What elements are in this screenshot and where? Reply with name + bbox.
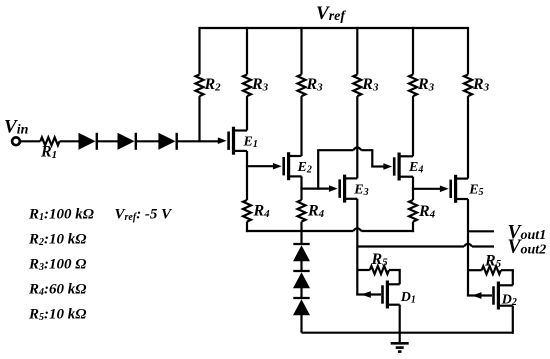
wire diode1 to diode2 [300,261,302,271]
wire D1 gate wire [356,293,381,295]
transistor D1 (arrow out of gate) [361,281,400,309]
svg-text:D2: D2 [501,293,517,309]
svg-text:E2: E2 [297,160,312,176]
svg-text:D1: D1 [400,290,416,306]
wire gate net down jog [371,149,373,166]
wire diode3 to E1 gate, junction with branch1 [178,140,219,142]
wire branch6 upper segment [467,27,469,75]
svg-text:R3: R3 [417,76,435,94]
diode chain diode 2 (pointing up) [293,271,310,288]
svg-text:R2: R2 [204,76,222,94]
wire R5 right end to D1 drain riser [389,269,400,284]
svg-text:R4: R4 [418,203,436,221]
svg-text:R5: R5 [371,251,389,269]
resistor R4 (column2) [243,200,251,222]
wire gate net horizontal with hop over branch4 [317,149,372,151]
svg-text:Vin: Vin [4,117,29,138]
wire hop over E3 source column [353,228,361,231]
wire branch4 lower segment to E3 drain [356,96,358,178]
wire E4 source down to R4, junction to E5 gate [412,177,414,200]
wire branch2 lower segment to E1 drain [246,96,248,130]
wire D2 gate wire [467,294,492,296]
wire E4 source tap to E5 gate [412,188,440,190]
diode chain diode 3 (pointing up) [293,298,310,315]
svg-text:R3: R3 [306,76,324,94]
diode chain diode 1 (pointing up) [293,244,310,261]
wire R4 bottom to rail A [246,222,248,233]
wire branch3 lower segment to E2 drain [300,96,302,156]
svg-text:Vref: Vref [316,3,346,24]
svg-text:R3: R3 [361,76,379,94]
wire branch3 upper segment [300,27,302,75]
svg-text:R4: R4 [253,203,271,221]
svg-text:E4: E4 [408,160,423,176]
resistor R3 (branch3) [298,75,306,97]
resistor R1 [40,137,59,145]
resistor R5 (right) [482,266,501,274]
svg-text:R3:100 Ω: R3:100 Ω [28,257,86,274]
wire branch1 lower segment [198,96,200,142]
transistor D2 (arrow out of gate) [472,282,513,310]
diode input 1 [79,133,97,150]
wire E3 source down through Vout2 to D1 gate corner [356,199,358,295]
wire Vref top rail [200,27,469,29]
wire diode3 to ground rail corner [300,315,302,333]
svg-text:E5: E5 [468,183,483,199]
resistor R4 (column5) [409,200,417,222]
diode input 2 [118,133,136,150]
wire branch5 lower segment to E4 drain [412,96,414,156]
svg-text:Vref: -5 V: Vref: -5 V [115,207,174,224]
svg-text:R5: R5 [484,253,502,271]
wire E1 source to E2 gate [246,165,273,167]
transistor E3 [329,175,357,203]
wire R4 bottom corner to rail A right end [412,222,414,233]
svg-text:R4:60 kΩ: R4:60 kΩ [28,282,86,299]
terminal Vin (open circle) [12,137,20,145]
wire D1 source down through ground rail to ground symbol [399,305,401,343]
resistor R4 (column3) [298,200,306,222]
wire hop over branch4 [353,147,361,150]
svg-text:R1:100 kΩ: R1:100 kΩ [28,207,94,224]
resistor R2 [196,75,204,97]
wire diode1 to diode2 [98,140,118,142]
wire ground rail [302,332,513,334]
svg-text:R4: R4 [307,203,325,221]
wire R5 (right) line from E5 source column [468,269,482,271]
wire diode2 to diode3 [300,288,302,298]
svg-text:E3: E3 [353,182,368,198]
wire Vout2 line with hop over E5 source column [357,245,494,247]
wire E3/E4 gate net riser [317,150,319,190]
wire branch4 upper segment [356,27,358,75]
resistor R5 (left) [370,266,389,274]
svg-text:R5:10 kΩ: R5:10 kΩ [28,307,86,324]
wire rail A (R4 commons) with hop over E3 source [246,230,414,232]
diode chain: wire rail A to diode1 [300,231,302,244]
ground symbol [391,343,409,351]
wire D2 source down to ground rail [512,306,514,334]
wire branch1 upper segment [198,27,200,75]
wire R1 to diode D-in1 [60,140,80,142]
wire Vout1 stub [468,230,494,232]
wire Vin to R1 [21,140,41,142]
transistor E2 [273,152,302,180]
transistor E4 [383,153,413,181]
svg-text:R2:10 kΩ: R2:10 kΩ [28,232,86,249]
svg-text:R3: R3 [251,76,269,94]
resistor R3 (branch4) [353,75,361,97]
svg-text:E1: E1 [243,135,258,151]
wire E2 source down to R4, junction to E3 gate [300,176,302,200]
resistor R3 (branch6) [464,75,472,97]
wire E1 source down to R4, junction to E2 gate [246,151,248,200]
resistor R3 (branch5) [409,75,417,97]
wire R4 bottom to rail A junction [300,222,302,231]
transistor E1 [218,127,247,155]
wire diode2 to diode3 [137,140,159,142]
wire E5 source down through Vout1 to D2 gate corner [467,199,469,296]
wire branch2 upper segment [246,27,248,75]
wire hop over E5 source column [464,244,472,247]
diode input 3 [158,133,176,150]
wire branch6 lower segment to E5 drain [467,96,469,179]
wire R5 right end to D2 drain riser [501,269,513,285]
wire gate net to E4 gate [371,165,384,167]
svg-text:R1: R1 [40,144,57,162]
wire branch5 upper segment [412,27,414,75]
resistor R3 (branch2) [243,75,251,97]
wire R5 (left) line from E3 source column [357,269,370,271]
wire E2 source tap to E3 gate, T junction at x318 [300,188,329,190]
transistor E5 [440,175,468,203]
svg-text:R3: R3 [472,76,490,94]
